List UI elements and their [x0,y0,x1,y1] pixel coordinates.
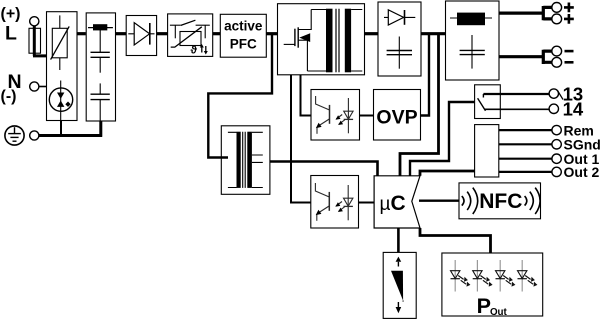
optocoupler U2 box [311,90,360,141]
terminal plus 2 [552,14,562,24]
wire contact 13 [483,93,551,95]
Pout block box [442,253,543,316]
adjust arrow up [396,257,402,267]
svg-text:PFC: PFC [230,37,257,52]
led 2 [473,260,493,292]
optocoupler U2 phototransistor [316,96,330,134]
svg-text:(-): (-) [1,88,17,105]
label plus 2 [564,14,574,24]
wire SGnd [499,143,552,145]
wire main bus segment 6 [365,32,379,35]
capacitor C1 [91,30,110,73]
wire transformer to opto U3 [291,75,311,203]
inrush limiter block box [168,14,213,57]
label minus 2 [565,61,574,64]
bypass switch [170,20,210,38]
fuse F1 [29,28,41,53]
output capacitor C4 [460,35,485,69]
terminal minus 1 [552,46,562,56]
wire aux transformer feed [208,35,272,158]
output filter block box [446,1,500,80]
terminal 13 [549,89,558,98]
wire plus output [499,6,552,20]
wire opto U2 to OVP [360,115,374,117]
gas discharge tube [49,81,72,121]
emi filter block box [86,13,115,121]
terminal Rem [552,125,561,134]
wire contact 14 [485,108,552,110]
terminal minus 2 [552,57,562,67]
wire ovp sense drop [421,35,430,116]
optocoupler U3 led [335,185,353,220]
wire main bus segment 1 [77,32,86,35]
wire N terminal to input block [39,86,47,88]
rectifier diode D1 [128,23,154,45]
wire opto U3 to uC [359,202,375,204]
terminal N [30,82,39,91]
optocoupler U3 box [311,176,359,229]
terminal Out 2 [552,167,561,176]
wire uC to NFC [419,199,459,201]
wire Out 1 [499,158,552,160]
aux transformer T2 primary winding [228,132,241,188]
led 1 [451,260,471,292]
main converter block box [278,4,365,75]
svg-text:L: L [5,22,17,44]
microcontroller U1 box [374,176,420,228]
transformer T1 secondary winding [345,9,363,73]
NFC wave arcs left [462,188,478,214]
capacitor C2 [91,83,110,121]
NTC thermistor [171,27,202,47]
aux transformer T2 secondary windings [247,132,262,188]
led 3 [496,260,516,292]
wire uC to Pout block [420,228,491,253]
wire aux transformer to uC [270,162,378,176]
wire uc to signal connector [420,171,475,176]
label minus 1 [565,50,574,53]
wire relay drive [410,102,475,176]
terminal SGnd [552,140,561,149]
wire input block to ground bus [60,121,62,136]
led 4 [518,260,538,292]
svg-text:NFC: NFC [479,190,522,213]
label plus 1 [564,3,574,13]
signal connector block box [475,125,499,177]
wire L terminal to input block [33,26,47,56]
transformer T1 primary winding [307,9,332,73]
wire PE ground bus [39,121,102,137]
wire uC to adjust block [397,228,400,252]
optocoupler U3 phototransistor [315,183,329,221]
adjust arrow down [396,301,404,314]
aux transformer T2 box [221,126,270,195]
svg-text:14: 14 [563,99,584,120]
varistor RV1 [51,15,70,70]
output adjust block box [383,252,416,318]
NFC block box [459,183,541,219]
output capacitor C3 [387,37,412,69]
relay contact blade [478,94,486,111]
terminal PE [30,131,39,140]
wire transformer to opto U2 [301,75,312,116]
terminal 14 [549,104,558,113]
label theta arrows [191,44,208,57]
active PFC block box [220,14,266,57]
optocoupler U2 led [336,98,354,133]
mosfet Q1 [284,10,312,72]
terminal plus 1 [552,3,562,13]
svg-text:OVP: OVP [376,107,417,129]
svg-text:ϑ: ϑ [191,45,198,57]
wire main bus segment 2 [116,32,127,35]
wire main bus segment 4 [213,32,221,35]
wire minus output [499,50,552,64]
wire main bus segment 7 [421,32,446,35]
output choke L2 [450,13,492,26]
OVP block box [374,90,421,141]
transformer T1 core [336,9,339,73]
svg-text:(+): (+) [1,5,21,22]
terminal Out 1 [552,154,561,163]
wire main bus segment 3 [157,32,168,35]
aux transformer T2 core [243,132,246,188]
svg-text:Out 2: Out 2 [564,164,600,180]
ground symbol (protective earth) [5,126,24,145]
terminal L [30,17,39,26]
wire main bus segment 5 [266,32,277,35]
input rectifier block box [126,16,156,56]
wire uc sense drop [400,35,439,176]
svg-text:active: active [224,19,263,34]
emi choke L1 [88,24,113,30]
output diode D2 [384,10,415,25]
wire Out 2 [499,171,552,173]
adjust wedge [391,271,403,301]
relay block box [475,85,501,119]
contact tick 13 [558,91,564,100]
svg-text:µC: µC [380,192,406,215]
output rectifier block box [378,2,421,76]
wire Rem [499,129,552,131]
NFC wave arcs right [525,188,541,214]
surge protection block box [47,12,78,121]
